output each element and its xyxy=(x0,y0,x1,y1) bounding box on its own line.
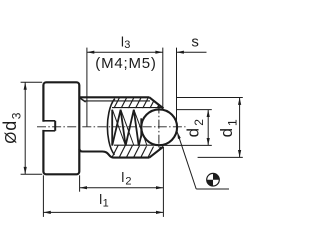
centerline ball vertical xyxy=(158,105,160,151)
svg-text:3: 3 xyxy=(10,112,24,119)
dimension l2 xyxy=(80,148,164,217)
dimension d1 xyxy=(177,98,243,158)
bore top line xyxy=(112,107,162,109)
dimension d2 xyxy=(162,110,212,146)
taper bottom-right xyxy=(149,147,163,158)
ball material symbol xyxy=(207,173,220,186)
dimension s xyxy=(177,48,207,123)
svg-text:l: l xyxy=(121,169,124,185)
hatch bottom band xyxy=(104,144,161,158)
dimension l3 xyxy=(87,48,163,127)
svg-text:Ø: Ø xyxy=(3,132,20,144)
body outline top (thread OD) xyxy=(79,96,149,98)
centerline main xyxy=(37,126,186,128)
dimension d3 xyxy=(21,82,43,174)
chamfer top-left xyxy=(79,98,85,102)
taper top-right xyxy=(149,97,163,108)
label d3 xyxy=(0,112,24,144)
leader to ball symbol xyxy=(177,132,196,189)
svg-text:2: 2 xyxy=(125,176,131,188)
hatch top band xyxy=(107,97,164,109)
svg-text:1: 1 xyxy=(103,198,109,210)
svg-text:s: s xyxy=(191,34,199,51)
bore bottom line xyxy=(114,144,162,146)
ball xyxy=(141,109,177,145)
spring xyxy=(112,110,141,146)
svg-text:d: d xyxy=(183,128,202,137)
svg-text:d: d xyxy=(217,128,236,137)
svg-text:3: 3 xyxy=(124,39,130,51)
spring end coil at ball xyxy=(140,118,142,137)
thread root line xyxy=(85,100,150,102)
head slot (open notch) xyxy=(42,121,55,131)
bore end arc xyxy=(107,99,114,155)
label d1 xyxy=(217,119,240,137)
svg-text:2: 2 xyxy=(192,119,206,126)
svg-text:d: d xyxy=(0,121,20,131)
head xyxy=(43,82,79,174)
svg-text:(M4;M5): (M4;M5) xyxy=(95,55,156,72)
dimension l1 xyxy=(43,175,163,217)
svg-text:1: 1 xyxy=(225,119,239,126)
body outline bottom xyxy=(79,149,149,158)
label d2 xyxy=(183,119,205,138)
